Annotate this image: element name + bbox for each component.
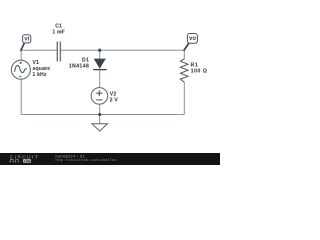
- D1 labels: [69, 57, 89, 69]
- wire top-left (vi corner to C1 left plate): [21, 49, 57, 51]
- footer logo wave: [9, 159, 20, 162]
- diode D1: [93, 59, 106, 70]
- wire D1 cathode to V2: [99, 70, 101, 88]
- wire D1 anode lead: [99, 50, 101, 59]
- wire top-right (C1 right plate to vo corner): [61, 49, 185, 51]
- resistor R1: [180, 59, 188, 82]
- wire V1 bottom lead: [20, 79, 22, 114]
- footer bar: [0, 153, 220, 165]
- svg-text:D1: D1: [82, 57, 89, 63]
- svg-text:vo: vo: [189, 36, 196, 42]
- svg-text:1N4148: 1N4148: [69, 64, 89, 70]
- V1 labels: [33, 60, 51, 78]
- wire R1 top lead: [183, 50, 185, 59]
- node junction dot bottom: [98, 113, 101, 116]
- wire ground stub: [99, 115, 101, 124]
- svg-text:http://circuitlab.com/c8sf7ss: http://circuitlab.com/c8sf7ss: [56, 158, 118, 162]
- svg-text:1 kHz: 1 kHz: [33, 72, 47, 78]
- ground: [92, 124, 108, 131]
- capacitor C1: [57, 42, 60, 62]
- capacitor C1 labels: [52, 24, 65, 36]
- node junction dot top: [98, 49, 101, 52]
- svg-text:LAB: LAB: [24, 159, 30, 163]
- wire V1 top lead: [20, 50, 22, 60]
- node vo flag: [184, 34, 197, 51]
- svg-text:1 mF: 1 mF: [52, 29, 65, 35]
- wire bottom rail: [21, 114, 185, 116]
- svg-text:100 Ω: 100 Ω: [191, 68, 208, 74]
- svg-text:vi: vi: [24, 36, 29, 42]
- V2 labels: [110, 92, 119, 104]
- R1 labels: [191, 63, 208, 75]
- voltage source V2: [91, 88, 108, 105]
- wire R1 bottom lead: [183, 82, 185, 114]
- node vi flag: [21, 35, 31, 51]
- wire V2 bottom lead: [99, 104, 101, 114]
- svg-text:2 V: 2 V: [110, 98, 119, 104]
- voltage source V1: [11, 60, 30, 79]
- footer logo LAB box: [23, 159, 31, 163]
